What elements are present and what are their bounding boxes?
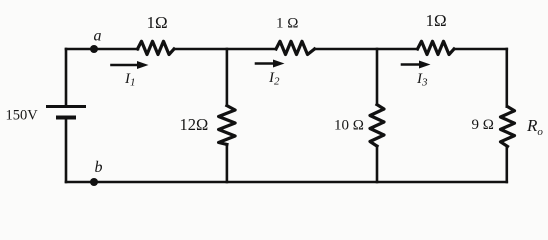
svg-text:150V: 150V [6, 108, 39, 124]
wire right vertical bottom lead [505, 146, 508, 182]
wire between R1 and 12ohm junction [174, 48, 276, 51]
wire right vertical top lead (9ohm / Ro branch) [505, 49, 508, 107]
svg-text:10 Ω: 10 Ω [334, 118, 364, 134]
wire 12ohm branch bottom lead [226, 144, 229, 182]
svg-text:Ro: Ro [526, 116, 543, 138]
svg-text:1 Ω: 1 Ω [276, 16, 298, 32]
wire top-right to corner [454, 48, 507, 51]
svg-text:12Ω: 12Ω [180, 115, 209, 134]
wire 10ohm branch bottom lead [376, 146, 379, 182]
current arrow I3 head [419, 61, 431, 69]
node a junction dot [90, 45, 98, 53]
resistor R3 1ohm (top zigzag) [418, 41, 455, 54]
resistor 9ohm Ro (vertical zigzag) [501, 107, 515, 147]
battery 150V long plate (+) [46, 105, 86, 108]
wire left vertical below battery [65, 120, 68, 183]
svg-text:1Ω: 1Ω [147, 13, 168, 32]
current arrow I1 head [137, 61, 149, 69]
wire 10ohm branch top lead [376, 49, 379, 105]
svg-text:b: b [95, 159, 103, 176]
resistor 12ohm (vertical zigzag) [219, 106, 236, 145]
wire 12ohm branch top lead [226, 49, 229, 106]
battery 150V short plate (-) [56, 116, 76, 120]
node b junction dot [90, 178, 98, 186]
current arrow I2 shaft [256, 62, 274, 65]
current arrow I3 shaft [402, 63, 420, 66]
current arrow I1 shaft [112, 64, 139, 67]
wire left vertical above battery [65, 49, 68, 106]
wire bottom rail [66, 181, 507, 184]
svg-text:I1: I1 [124, 71, 136, 89]
resistor R1 1ohm (top zigzag) [138, 41, 175, 54]
current arrow I2 head [273, 60, 285, 68]
wire between R2 and 10ohm junction [315, 48, 418, 51]
resistor R2 1ohm (top zigzag) [276, 41, 315, 54]
svg-text:9 Ω: 9 Ω [472, 117, 494, 133]
resistor 10ohm (vertical zigzag) [370, 105, 384, 147]
wire top-left: from left corner through node a to R1 [66, 48, 138, 51]
svg-text:I2: I2 [268, 70, 280, 88]
svg-text:1Ω: 1Ω [426, 11, 447, 30]
svg-text:I3: I3 [416, 71, 428, 89]
svg-text:a: a [94, 28, 102, 45]
